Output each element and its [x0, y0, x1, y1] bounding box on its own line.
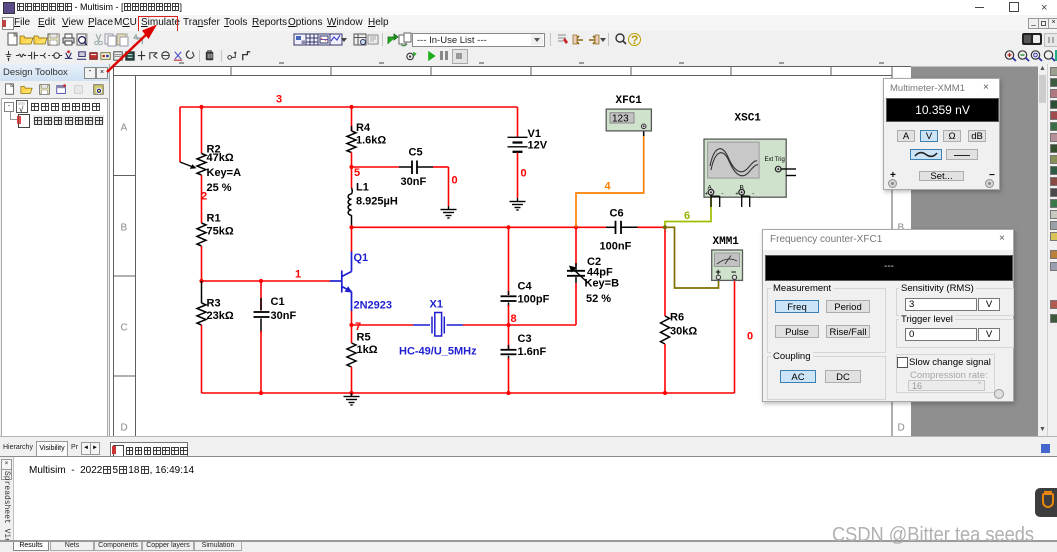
svg-text:C4: C4: [518, 281, 533, 293]
junction node 5: [349, 165, 353, 169]
svg-text:52 %: 52 %: [586, 293, 611, 305]
svg-text:0: 0: [521, 168, 527, 180]
svg-text:1.6kΩ: 1.6kΩ: [356, 135, 386, 147]
svg-text:25 %: 25 %: [207, 182, 232, 194]
svg-text:-: -: [722, 192, 724, 198]
svg-text:HC-49/U_5MHz: HC-49/U_5MHz: [399, 346, 477, 358]
svg-text:5: 5: [354, 167, 360, 179]
node 2 label: [201, 191, 207, 203]
junction top R4: [349, 105, 353, 109]
wire R6 to bottom rail: [664, 344, 666, 393]
svg-text:R1: R1: [207, 213, 221, 225]
resistor R3: [197, 281, 234, 325]
svg-text:C5: C5: [409, 147, 423, 159]
svg-text:1.6nF: 1.6nF: [518, 346, 547, 358]
resistor R4: [347, 107, 386, 153]
resistor R5: [347, 325, 378, 367]
XFC1 label: [616, 95, 643, 107]
svg-text:100nF: 100nF: [600, 241, 632, 253]
node 1 label: [295, 269, 301, 281]
svg-text:L1: L1: [356, 182, 369, 194]
svg-text:C: C: [121, 323, 128, 334]
junction node 7: [349, 323, 353, 327]
capacitor C5: [399, 147, 433, 189]
junction orange/C2: [574, 225, 578, 229]
crystal X1: [413, 313, 463, 337]
wire C6 to junction: [638, 226, 666, 228]
wire R5 to bottom rail: [351, 367, 353, 393]
svg-text:Key=A: Key=A: [207, 167, 242, 179]
junction L1 bottom: [349, 225, 353, 229]
node 6 label: [684, 210, 690, 222]
svg-text:4: 4: [605, 181, 612, 193]
node 0 label at V1: [521, 168, 527, 180]
node 3 label: [276, 94, 282, 106]
ground V1: [510, 198, 526, 210]
svg-text:XFC1: XFC1: [616, 95, 643, 107]
tree row 2: [10, 112, 11, 120]
instrument XMM1: [712, 250, 743, 280]
svg-text:C6: C6: [610, 208, 624, 220]
node 4 label: [605, 181, 612, 193]
variable capacitor C2: [567, 227, 619, 305]
svg-text:23kΩ: 23kΩ: [207, 310, 234, 322]
right scrollbar: [1038, 64, 1047, 436]
svg-text:D: D: [898, 423, 905, 434]
capacitor C6: [600, 208, 638, 253]
sheet paper: [110, 67, 911, 437]
svg-text:XMM1: XMM1: [713, 236, 740, 248]
svg-text:Key=B: Key=B: [585, 278, 620, 290]
watermark: [832, 523, 1034, 547]
svg-text:30nF: 30nF: [401, 176, 427, 188]
svg-text:C3: C3: [518, 333, 532, 345]
svg-text:0: 0: [747, 331, 753, 343]
olive wire to XMM1 plus: [665, 227, 719, 288]
svg-text:1: 1: [295, 269, 301, 281]
resistor R1: [197, 213, 234, 247]
wire R4 to node 5: [351, 153, 353, 168]
svg-text:8.925µH: 8.925µH: [356, 196, 398, 208]
svg-text:X1: X1: [430, 299, 443, 311]
svg-text:123: 123: [612, 114, 629, 125]
XSC1 label: [735, 113, 762, 125]
wire node 8 to C2 branch: [509, 283, 577, 325]
wire R2 top lead: [201, 107, 203, 154]
design toolbox bottom tabs: [3, 444, 33, 451]
svg-text:+: +: [735, 192, 739, 198]
bottom ground rail net 0: [202, 392, 735, 394]
junction node1 left: [199, 279, 203, 283]
wire C1 to bottom rail: [260, 331, 262, 393]
svg-text:75kΩ: 75kΩ: [207, 226, 234, 238]
capacitor C3: [501, 325, 547, 393]
svg-text:2N2923: 2N2923: [354, 300, 393, 312]
bottom tabs: [0, 540, 1057, 552]
document tab: [110, 442, 188, 457]
X1 labels: [399, 299, 477, 358]
svg-text:R6: R6: [670, 312, 684, 324]
chartreuse wire net 6 to XSC1: [665, 196, 711, 227]
svg-text:Ext Trig: Ext Trig: [765, 157, 785, 163]
XMM1 label: [713, 236, 740, 248]
instrument XFC1: [606, 109, 651, 131]
ground main: [344, 393, 360, 405]
wire net 5 to C5: [352, 166, 400, 168]
wire R3 to bottom rail: [201, 325, 203, 393]
svg-text:C1: C1: [271, 296, 285, 308]
svg-text:47kΩ: 47kΩ: [207, 152, 234, 164]
svg-text:+: +: [705, 192, 709, 198]
wire C5 to ground: [433, 167, 449, 206]
svg-text:D: D: [121, 423, 128, 434]
node 7 label: [355, 321, 361, 333]
svg-text:2: 2: [201, 191, 207, 203]
svg-text:R5: R5: [357, 332, 371, 344]
sheet border frame: [114, 67, 912, 437]
wire V1 to ground: [517, 153, 519, 198]
svg-text:6: 6: [684, 210, 690, 222]
inductor L1: [348, 167, 398, 227]
node 5 label: [354, 167, 360, 179]
junction top R2: [199, 105, 203, 109]
wire R1 to node 1: [201, 246, 203, 281]
ground C5: [441, 206, 457, 218]
svg-text:-: -: [752, 192, 754, 198]
instrument XSC1 oscilloscope: [704, 139, 796, 207]
capacitor C1: [254, 281, 297, 333]
svg-text:100pF: 100pF: [518, 294, 550, 306]
svg-text:A: A: [121, 123, 128, 134]
svg-text:0: 0: [452, 175, 458, 187]
wire net between L1 and C6: [352, 226, 607, 228]
wire XMM1 minus to bottom rail: [734, 279, 736, 393]
junction C3 bottom: [506, 391, 510, 395]
node 0 label at C5 ground: [452, 175, 458, 187]
node 0 label at XMM1 wire: [747, 331, 753, 343]
capacitor C4: [501, 227, 550, 325]
potentiometer R2: [180, 144, 241, 195]
right vertical toolbar: [1047, 64, 1057, 436]
junction R5 ground: [349, 391, 353, 395]
junction C4 top: [506, 225, 510, 229]
svg-text:R3: R3: [207, 298, 221, 310]
svg-text:Q1: Q1: [354, 252, 369, 264]
junction node 8: [506, 323, 510, 327]
wire net 2: [201, 175, 203, 223]
transistor Q1: [330, 227, 392, 311]
zone letters: [121, 123, 905, 434]
svg-text:XSC1: XSC1: [735, 113, 762, 125]
junction C6 right: [663, 225, 667, 229]
tree row 1: [4, 102, 14, 112]
wire net 3 top rail: [180, 107, 518, 162]
battery V1: [508, 107, 548, 152]
svg-text:B: B: [121, 223, 128, 234]
svg-text:3: 3: [276, 94, 282, 106]
wire Q1 emitter to node 7: [351, 311, 353, 325]
svg-text:R4: R4: [356, 122, 371, 134]
orange wire net 4 XFC1: [576, 129, 644, 228]
junction node1 C1: [259, 279, 263, 283]
svg-text:12V: 12V: [528, 140, 548, 152]
wire X1 to node 8: [463, 324, 509, 326]
svg-text:8: 8: [511, 313, 517, 325]
svg-text:30kΩ: 30kΩ: [670, 326, 697, 338]
svg-text:1kΩ: 1kΩ: [357, 344, 378, 356]
resistor R6: [661, 227, 698, 344]
wire net 7 horizontal: [352, 324, 414, 326]
svg-text:V1: V1: [528, 128, 541, 140]
mdi child buttons: [1028, 18, 1039, 29]
wire net 1 horizontal: [202, 280, 331, 282]
node 8 label: [511, 313, 517, 325]
junction R6 bottom: [663, 391, 667, 395]
svg-text:30nF: 30nF: [271, 310, 297, 322]
junction C1 bottom: [259, 391, 263, 395]
